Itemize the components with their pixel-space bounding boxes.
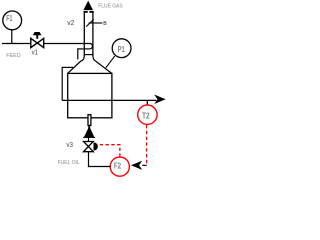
coil U-turn inside stack [90, 44, 93, 49]
wire: F1 tap line down to feed pipe [11, 30, 13, 44]
hood right slope [95, 61, 111, 73]
instrument T2 tap tick [146, 100, 148, 105]
burner nozzle at firebox floor [88, 115, 91, 126]
hood right shoulder [93, 56, 96, 61]
svg-text:T2: T2 [142, 112, 150, 121]
furnace firebox body [68, 73, 112, 117]
hood left slope [68, 61, 81, 73]
instrument F1 (flow indicator on feed) [3, 11, 22, 30]
svg-text:F2: F2 [114, 162, 122, 171]
signal: F2 output to valve v3 (red dashed) [119, 145, 121, 157]
product stream arrow (filled, pointing right) [154, 95, 165, 105]
wire: FUEL OIL main to F2 [88, 166, 110, 168]
flue gas arrow (filled, pointing up) [83, 1, 93, 11]
furnace stack left wall [83, 12, 85, 56]
stack top rim [84, 11, 88, 13]
signal arrow into F2 (filled, pointing left) [131, 161, 142, 170]
instrument P1 (pressure indicator on firebox) [112, 39, 131, 58]
instrument T2 (temperature controller, red) [138, 105, 157, 124]
wire: coil return run [78, 48, 90, 50]
stream pointer B on stack [86, 19, 93, 26]
signal: T2 output (red dashed, down) [146, 125, 148, 165]
wire: fuel pipe valve to fuel main [88, 152, 90, 167]
svg-text:FLUE GAS: FLUE GAS [98, 4, 123, 10]
furnace rear left wall [61, 67, 63, 101]
svg-text:F1: F1 [6, 14, 13, 23]
wire: fuel pipe burner to valve [88, 137, 90, 141]
svg-text:FUEL OIL: FUEL OIL [58, 160, 80, 166]
svg-text:P1: P1 [118, 45, 126, 54]
furnace stack right wall [92, 12, 94, 56]
wire: product/outlet line through firebox [62, 99, 156, 101]
instrument F2 (flow controller on fuel, red) [110, 157, 129, 176]
svg-text:v1: v1 [32, 49, 38, 56]
wire: FEED pipe right segment into convection coil [44, 43, 90, 45]
burner flame (filled) [84, 126, 95, 137]
signal tail into F2 [142, 164, 147, 166]
hood left shoulder [81, 56, 84, 61]
wire: FEED pipe left segment [2, 43, 31, 45]
svg-text:B: B [103, 21, 107, 27]
instrument P1 connector [106, 56, 115, 68]
valve v1 (control valve on feed line) [31, 32, 44, 48]
svg-text:v3: v3 [66, 142, 73, 149]
stack base rim [84, 54, 94, 56]
valve v3 (fuel control valve, vertical) [84, 142, 98, 152]
svg-text:FEED: FEED [6, 53, 20, 59]
furnace rear top edge [62, 66, 73, 68]
wire: coil drop into hood [77, 48, 79, 59]
svg-text:v2: v2 [67, 20, 74, 27]
